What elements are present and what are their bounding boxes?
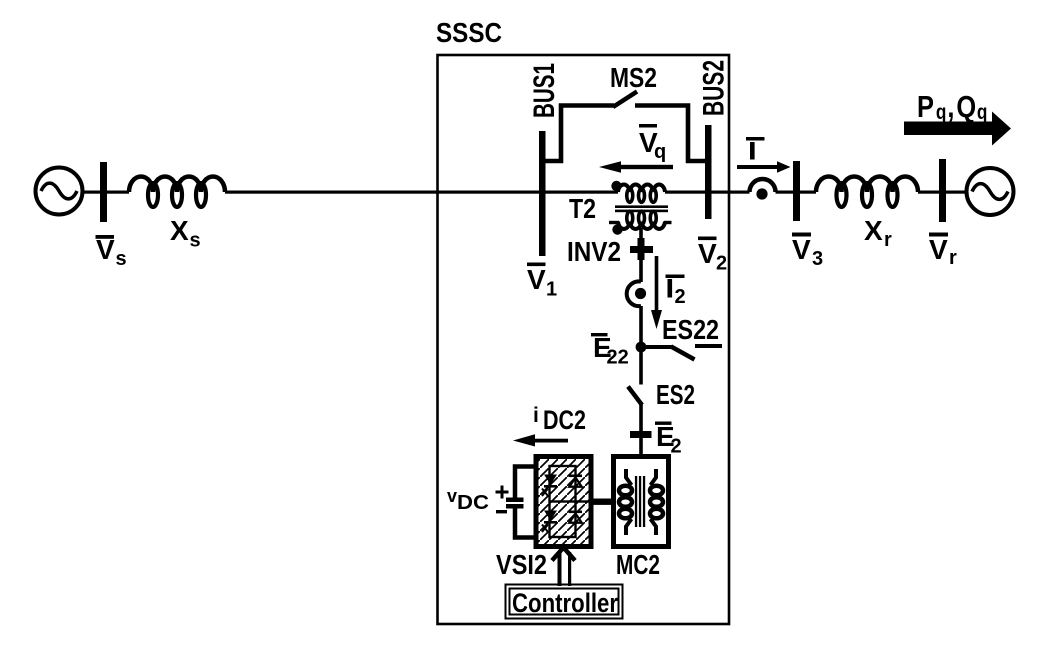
label iDC2 <box>533 404 586 435</box>
label V2 <box>698 237 727 275</box>
MC2 core <box>635 476 645 527</box>
svg-text:V: V <box>698 238 717 269</box>
svg-text:s: s <box>116 248 127 270</box>
current sensor loop on INV2 wire <box>627 281 641 306</box>
VSI2 bridge frame <box>550 466 590 537</box>
wire ES2 to E2 <box>639 404 643 438</box>
svg-text:2: 2 <box>671 436 682 458</box>
wire source to Vs bus <box>82 191 100 194</box>
label Xr <box>864 215 892 251</box>
wire Vs bus to Xs <box>107 191 129 194</box>
svg-text:VSI2: VSI2 <box>496 549 547 580</box>
diode D-bottom-right <box>569 511 582 523</box>
svg-text:q: q <box>654 141 666 163</box>
svg-text:BUS2: BUS2 <box>698 60 731 116</box>
controller signal arrows <box>552 548 575 587</box>
wire Vr to right source <box>946 191 967 194</box>
bus bar V3 <box>793 161 800 221</box>
switch MS2 bypass wire left <box>546 106 615 162</box>
label Vq <box>639 124 666 163</box>
wire E2 to MC2 <box>639 438 643 456</box>
switch MS2 blade <box>613 92 637 108</box>
svg-text:ES2: ES2 <box>656 379 695 410</box>
sensor dot <box>635 288 646 299</box>
label I2 <box>666 275 686 309</box>
svg-text:r: r <box>884 229 892 251</box>
switch ES2 blade <box>628 387 642 406</box>
svg-text:Controller: Controller <box>512 588 618 618</box>
switch MS2 bypass wire right <box>635 106 705 162</box>
node E22 junction dot <box>636 342 647 353</box>
svg-text:q: q <box>936 102 947 125</box>
Controller box <box>506 585 623 619</box>
label E2 <box>655 421 682 458</box>
T2 core <box>615 205 668 212</box>
label Vs <box>96 234 127 270</box>
DC link wire loop <box>515 467 534 538</box>
T2 secondary polarity dot <box>612 224 622 234</box>
svg-text:s: s <box>190 230 201 252</box>
transformer T2 secondary winding <box>609 211 672 229</box>
switch ES22 fixed contact <box>695 344 722 348</box>
VSI2 output stub to MC2 <box>589 499 614 505</box>
transformer MC2 box <box>614 457 669 547</box>
svg-text:V: V <box>792 234 811 265</box>
diode D-top-right <box>569 475 582 487</box>
bus bar BUS2 <box>705 125 712 219</box>
inductor Xr <box>816 177 918 208</box>
svg-text:22: 22 <box>607 347 629 369</box>
label I (line current) <box>746 137 765 160</box>
SSSC enclosure box <box>438 55 730 624</box>
svg-text:INV2: INV2 <box>567 236 621 267</box>
svg-text:Q: Q <box>956 90 976 125</box>
GTO valve Q-top-left <box>542 475 557 497</box>
svg-text:T2: T2 <box>569 193 596 224</box>
svg-text:X: X <box>170 215 189 246</box>
bus bar Vs <box>100 162 107 222</box>
transformer T2 primary winding <box>618 185 665 203</box>
arrow Pq Qq (thick, points right) <box>904 112 1011 146</box>
svg-text:MC2: MC2 <box>616 549 660 580</box>
arrow I (points right) <box>737 161 791 172</box>
svg-text:v: v <box>447 486 457 506</box>
svg-text:r: r <box>949 247 957 269</box>
polarity minus <box>496 510 507 513</box>
MC2 right winding <box>650 469 663 535</box>
svg-text:MS2: MS2 <box>610 62 657 93</box>
wire Xr to Vr <box>918 191 939 194</box>
label V1 <box>527 263 557 301</box>
inductor Xs <box>129 177 225 208</box>
polarity plus <box>496 486 509 499</box>
svg-text:i: i <box>533 404 539 427</box>
switch ES22 wire <box>641 345 672 349</box>
svg-text:q: q <box>977 102 988 125</box>
AC source Vr (right generator) <box>967 168 1014 215</box>
svg-text:1: 1 <box>546 279 557 301</box>
label Pq, Qq <box>917 90 987 125</box>
T2 primary polarity dot <box>611 181 621 191</box>
main line T2 to BUS2 and sensor <box>665 191 750 194</box>
svg-text:ES22: ES22 <box>662 314 719 345</box>
wire T2 secondary down <box>639 228 643 282</box>
MC2 left winding <box>619 469 632 535</box>
inverter VSI2 box (hatched) <box>536 457 591 547</box>
capacitor vDC <box>506 498 524 509</box>
label E22 <box>591 332 629 369</box>
svg-text:BUS1: BUS1 <box>528 63 561 118</box>
arrow iDC2 (points left) <box>513 434 568 446</box>
AC source Vs (left generator) <box>36 168 83 215</box>
svg-text:SSSC: SSSC <box>436 17 502 48</box>
wire sensor to node E22 <box>639 306 643 385</box>
label Xs <box>170 215 201 252</box>
wire V3 to Xr <box>800 191 816 194</box>
svg-text:X: X <box>864 215 883 246</box>
arrow I2 (points down) <box>651 256 662 329</box>
svg-text:V: V <box>96 234 115 265</box>
svg-text:DC: DC <box>457 492 489 514</box>
arrow Vq (points left) <box>599 161 673 172</box>
svg-text:2: 2 <box>675 286 686 308</box>
svg-text:2: 2 <box>716 253 727 275</box>
GTO valve Q-bottom-left <box>542 511 557 533</box>
label vDC <box>447 486 489 514</box>
node E2 terminal bar <box>630 431 652 438</box>
svg-text:3: 3 <box>812 248 823 270</box>
wire sensor to V3 bus <box>776 191 794 194</box>
label Vr <box>929 233 957 270</box>
label V3 <box>792 233 823 271</box>
bus bar Vr <box>939 159 946 222</box>
svg-text:,: , <box>947 90 954 125</box>
node INV2 terminal cross <box>630 238 653 260</box>
line current sensor bump <box>750 179 776 192</box>
line sensor dot <box>756 188 767 199</box>
wire Xs to T2 (main transmission line left segment) <box>225 191 618 194</box>
svg-text:V: V <box>929 234 948 265</box>
svg-text:V: V <box>527 264 546 295</box>
svg-text:P: P <box>917 90 934 125</box>
switch ES22 blade <box>671 347 695 360</box>
bus bar BUS1 <box>539 131 546 256</box>
svg-text:DC2: DC2 <box>543 405 586 435</box>
